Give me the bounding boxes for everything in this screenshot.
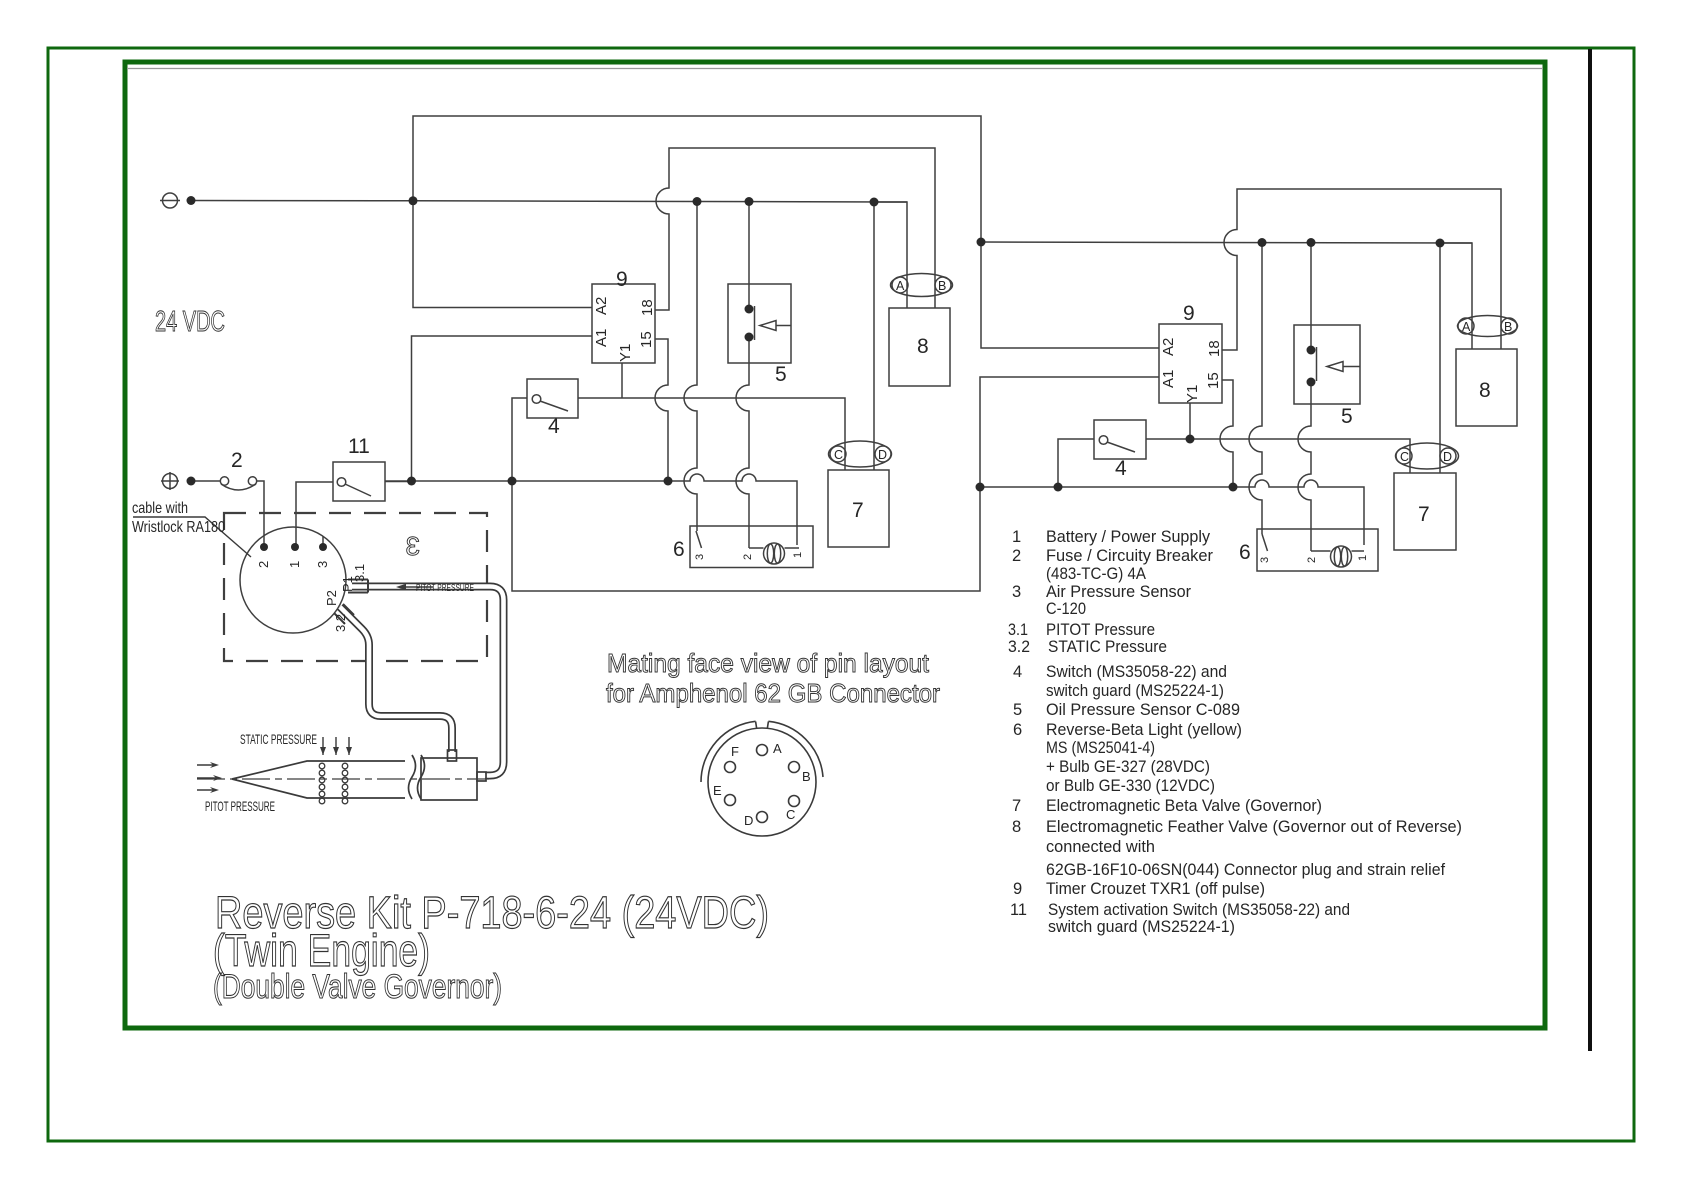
svg-text:8: 8 — [917, 335, 929, 358]
svg-text:3.1: 3.1 — [352, 564, 367, 582]
svg-text:8: 8 — [1479, 379, 1491, 402]
svg-text:11: 11 — [348, 435, 370, 458]
svg-text:Air Pressure Sensor: Air Pressure Sensor — [1046, 583, 1191, 601]
svg-text:Oil Pressure Sensor C-089: Oil Pressure Sensor C-089 — [1046, 701, 1240, 719]
svg-text:A1: A1 — [1160, 370, 1177, 388]
svg-text:Y1: Y1 — [617, 344, 634, 362]
svg-text:2: 2 — [742, 554, 754, 560]
svg-text:4: 4 — [1013, 663, 1022, 681]
svg-text:A1: A1 — [593, 329, 610, 347]
svg-text:E: E — [713, 783, 722, 798]
svg-text:B: B — [938, 279, 946, 293]
svg-text:8: 8 — [1012, 818, 1021, 836]
svg-text:connected with: connected with — [1046, 838, 1155, 856]
svg-text:Y1: Y1 — [1184, 385, 1201, 403]
svg-text:3.2: 3.2 — [333, 614, 348, 632]
svg-text:1: 1 — [792, 552, 804, 558]
svg-text:F: F — [731, 744, 739, 759]
svg-text:Battery / Power Supply: Battery / Power Supply — [1046, 528, 1211, 546]
svg-text:9: 9 — [1013, 880, 1022, 898]
svg-text:9: 9 — [616, 268, 628, 291]
svg-text:7: 7 — [1418, 503, 1430, 526]
svg-text:C: C — [1400, 450, 1409, 464]
svg-text:D: D — [744, 813, 753, 828]
svg-text:3: 3 — [315, 561, 330, 568]
svg-text:4: 4 — [548, 415, 560, 438]
svg-text:A: A — [896, 279, 905, 293]
svg-text:4: 4 — [1115, 457, 1127, 480]
svg-text:6: 6 — [1239, 541, 1251, 564]
svg-text:System activation Switch (MS35: System activation Switch (MS35058-22) an… — [1048, 901, 1350, 919]
svg-text:2: 2 — [1012, 547, 1021, 565]
svg-text:15: 15 — [638, 331, 655, 348]
svg-text:switch guard (MS25224-1): switch guard (MS25224-1) — [1046, 682, 1224, 700]
svg-text:Wristlock RA180: Wristlock RA180 — [132, 519, 225, 536]
svg-text:A: A — [773, 741, 782, 756]
svg-text:3.1: 3.1 — [1008, 621, 1028, 639]
svg-text:Electromagnetic Feather Valve: Electromagnetic Feather Valve (Governor … — [1046, 818, 1462, 836]
svg-text:A2: A2 — [593, 297, 610, 315]
svg-text:18: 18 — [639, 299, 656, 316]
svg-text:6: 6 — [1013, 721, 1022, 739]
svg-text:cable with: cable with — [132, 500, 188, 517]
svg-text:3: 3 — [694, 554, 706, 560]
svg-text:Reverse-Beta Light (yellow): Reverse-Beta Light (yellow) — [1046, 721, 1242, 739]
svg-text:2: 2 — [231, 449, 243, 472]
svg-text:24 VDC: 24 VDC — [155, 306, 225, 338]
svg-text:2: 2 — [1306, 557, 1318, 563]
svg-text:3: 3 — [1012, 583, 1021, 601]
svg-text:6: 6 — [673, 538, 685, 561]
svg-text:15: 15 — [1205, 372, 1222, 389]
svg-text:or Bulb GE-330 (12VDC): or Bulb GE-330 (12VDC) — [1046, 777, 1215, 795]
svg-text:B: B — [802, 769, 811, 784]
svg-text:D: D — [1443, 450, 1452, 464]
svg-text:C: C — [834, 448, 843, 462]
svg-text:MS (MS25041-4): MS (MS25041-4) — [1046, 739, 1155, 757]
svg-text:PITOT PRESSURE: PITOT PRESSURE — [416, 583, 474, 594]
svg-text:7: 7 — [1012, 797, 1021, 815]
svg-text:+ Bulb GE-327 (28VDC): + Bulb GE-327 (28VDC) — [1046, 758, 1210, 776]
svg-text:C: C — [786, 807, 795, 822]
svg-text:for Amphenol 62 GB Connector: for Amphenol 62 GB Connector — [606, 678, 940, 708]
svg-text:3.2: 3.2 — [1008, 638, 1030, 656]
svg-text:P2: P2 — [324, 590, 339, 606]
svg-text:9: 9 — [1183, 302, 1195, 325]
svg-text:Switch (MS35058-22) and: Switch (MS35058-22) and — [1046, 663, 1227, 681]
svg-text:3: 3 — [1259, 557, 1271, 563]
svg-text:B: B — [1504, 320, 1512, 334]
svg-text:2: 2 — [256, 561, 271, 568]
svg-text:62GB-16F10-06SN(044) Connector: 62GB-16F10-06SN(044) Connector plug and … — [1046, 861, 1445, 879]
svg-text:11: 11 — [1010, 901, 1027, 919]
svg-text:(483-TC-G) 4A: (483-TC-G) 4A — [1046, 565, 1146, 583]
svg-text:STATIC PRESSURE: STATIC PRESSURE — [240, 731, 317, 747]
svg-text:7: 7 — [852, 499, 864, 522]
svg-text:C-120: C-120 — [1046, 600, 1086, 618]
svg-text:A2: A2 — [1160, 338, 1177, 356]
svg-text:A: A — [1462, 320, 1471, 334]
svg-text:18: 18 — [1206, 340, 1223, 357]
svg-text:5: 5 — [1341, 405, 1353, 428]
svg-text:Mating face view of pin layout: Mating face view of pin layout — [607, 648, 930, 678]
svg-text:(Double Valve Governor): (Double Valve Governor) — [213, 968, 502, 1006]
svg-text:PITOT PRESSURE: PITOT PRESSURE — [205, 798, 275, 814]
svg-text:Fuse / Circuity Breaker: Fuse / Circuity Breaker — [1046, 547, 1214, 565]
svg-text:5: 5 — [1013, 701, 1022, 719]
svg-text:3: 3 — [406, 531, 420, 561]
svg-text:Electromagnetic Beta Valve (Go: Electromagnetic Beta Valve (Governor) — [1046, 797, 1322, 815]
svg-text:1: 1 — [287, 561, 302, 568]
svg-text:STATIC Pressure: STATIC Pressure — [1048, 638, 1167, 656]
svg-text:D: D — [878, 448, 887, 462]
svg-text:Timer Crouzet TXR1 (off pulse): Timer Crouzet TXR1 (off pulse) — [1046, 880, 1265, 898]
svg-text:5: 5 — [775, 363, 787, 386]
svg-text:1: 1 — [1012, 528, 1021, 546]
svg-text:1: 1 — [1357, 555, 1369, 561]
svg-text:switch guard (MS25224-1): switch guard (MS25224-1) — [1048, 918, 1235, 936]
svg-text:PITOT Pressure: PITOT Pressure — [1046, 621, 1155, 639]
